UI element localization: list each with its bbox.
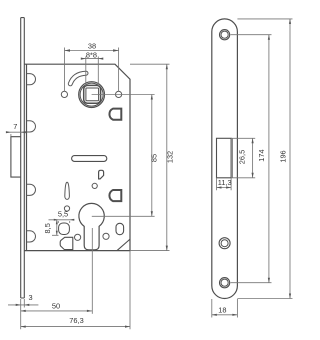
latch bump 3: [27, 184, 36, 195]
oval slot 5.5x8.5: [59, 223, 70, 235]
side circle left: [61, 91, 67, 97]
ext lines plate: [231, 19, 293, 299]
small circle above cylinder: [92, 183, 97, 188]
screw hole bottom: [220, 278, 230, 288]
centerline spindle: [92, 94, 155, 96]
svg-text:11,3: 11,3: [218, 178, 232, 187]
dim 174: [268, 35, 270, 283]
lock case outline: [24, 64, 130, 250]
svg-text:18: 18: [218, 305, 226, 314]
D-hole small left: [60, 237, 73, 249]
svg-text:38: 38: [88, 41, 96, 50]
teardrop slot: [65, 182, 70, 199]
centerline cylinder vertical: [91, 228, 93, 314]
comma-shaped slot: [70, 73, 86, 84]
dim 26,5: [252, 138, 254, 178]
horizontal stadium slot: [72, 156, 107, 162]
svg-text:7: 7: [13, 122, 17, 131]
svg-text:8*8: 8*8: [86, 50, 97, 59]
dim 50: [21, 308, 92, 314]
svg-text:8,5: 8,5: [43, 223, 52, 233]
D-hole lower: [109, 190, 121, 201]
side circle right: [116, 91, 122, 97]
latch bump 4: [27, 231, 36, 242]
screw hole top: [220, 30, 230, 40]
dim 8,5: [52, 220, 59, 236]
vertical oval hole: [116, 223, 124, 234]
dim 18: [212, 299, 238, 318]
svg-text:5,5: 5,5: [58, 209, 68, 218]
spindle inner ring: [80, 83, 103, 106]
svg-text:85: 85: [150, 154, 159, 162]
ext lines case top/bottom to 132 dim: [130, 64, 170, 250]
svg-text:50: 50: [52, 301, 60, 310]
dim 85: [151, 95, 153, 217]
dim 196: [289, 19, 291, 299]
euro cylinder keyhole: [79, 203, 104, 250]
front plate (end view): [212, 19, 238, 299]
dim 8*8: [82, 57, 102, 87]
spindle 8x8 square hole: [86, 88, 99, 101]
svg-text:196: 196: [279, 150, 288, 162]
spindle follower rounded square: [84, 85, 101, 103]
dim 76,3: [21, 251, 130, 330]
small circle right of cylinder: [103, 233, 109, 239]
svg-text:3: 3: [28, 293, 32, 302]
centerline cylinder horizontal: [92, 215, 155, 217]
dim 132: [166, 64, 168, 250]
dim 38: [65, 48, 119, 92]
small circle left of cylinder: [75, 234, 81, 240]
svg-text:76,3: 76,3: [69, 316, 83, 325]
small circle above oval: [64, 206, 69, 211]
latch bump 1: [27, 74, 36, 85]
small tab hole: [99, 170, 104, 179]
screw hole middle: [219, 238, 230, 249]
dim 5,5: [49, 220, 75, 223]
dim 11,3: [217, 178, 232, 190]
dim 7: [6, 132, 26, 136]
svg-text:26,5: 26,5: [237, 150, 246, 164]
bottom-right corner diagonal: [117, 239, 130, 250]
latch behind cutout: [231, 138, 233, 178]
latch bump 2: [27, 121, 36, 132]
dim 3: [8, 299, 38, 308]
deadbolt protruding 7mm: [11, 137, 21, 177]
svg-text:132: 132: [166, 151, 175, 163]
plate cutout: [217, 138, 232, 178]
svg-text:174: 174: [257, 149, 266, 161]
D-hole upper: [109, 109, 121, 120]
faceplate strip (side view): [21, 18, 25, 298]
spindle outer circle: [79, 82, 105, 108]
